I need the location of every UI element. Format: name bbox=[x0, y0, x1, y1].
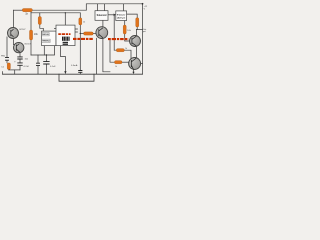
resistor R5 bbox=[79, 18, 82, 25]
wire R3 column lower bbox=[30, 40, 32, 55]
transistor Q4 bbox=[130, 36, 141, 47]
wire C2 lead bbox=[45, 55, 47, 74]
wire R4 bottom lead bbox=[8, 69, 10, 71]
wire R3 column upper bbox=[30, 13, 32, 30]
wire Q3 emitter down bbox=[95, 38, 97, 74]
IC U1 box bbox=[42, 31, 56, 45]
node +12V bbox=[142, 3, 148, 11]
svg-text:0.1uF: 0.1uF bbox=[50, 66, 56, 68]
wire R5 column bbox=[79, 13, 81, 74]
capacitor C3 bbox=[36, 63, 40, 65]
svg-text:BC547: BC547 bbox=[19, 29, 26, 31]
wire bottom-left stub bbox=[2, 72, 4, 75]
wire OUT node bbox=[136, 29, 142, 31]
wire ground bus drop bbox=[14, 70, 16, 74]
svg-text:DISCHG: DISCHG bbox=[42, 34, 49, 36]
arrow between boxes bbox=[114, 14, 116, 17]
current arrow A1 0.5mA bbox=[64, 64, 78, 74]
wire second rail bbox=[31, 10, 80, 13]
svg-text:BC557: BC557 bbox=[25, 43, 32, 45]
svg-text:4.7uF: 4.7uF bbox=[23, 66, 29, 68]
wire R2 top lead bbox=[39, 13, 41, 17]
resistor R10 bbox=[136, 18, 139, 27]
box U3 bbox=[116, 11, 127, 21]
svg-text:Timer: Timer bbox=[117, 14, 126, 17]
wire under loop bbox=[59, 74, 94, 81]
wire U3 left tap down bbox=[114, 15, 116, 50]
capacitor C2 0.1uF bbox=[43, 62, 56, 68]
transistor Q5 bbox=[129, 58, 141, 70]
wire U3 top lead bbox=[122, 4, 124, 11]
wire Q4 base feed bbox=[125, 21, 132, 42]
wire Q3 second column bbox=[103, 39, 110, 72]
resistor R7 bbox=[84, 32, 94, 35]
resistor R9 bbox=[115, 61, 123, 64]
wire U2 left pin stub bbox=[54, 28, 56, 30]
label red load left bbox=[58, 33, 70, 35]
resistor R8 bbox=[116, 49, 124, 52]
wire Q5 emitter to rail bbox=[133, 70, 135, 73]
arrowhead Q5 emitter bbox=[132, 72, 134, 74]
label red mid bbox=[73, 38, 94, 40]
node N3 bbox=[80, 33, 81, 34]
wire R9 feed column bbox=[110, 40, 115, 62]
wire U3 right lead bbox=[127, 14, 138, 18]
transistor Q1 bbox=[8, 28, 27, 39]
transistor Q2 bbox=[14, 42, 32, 52]
wire drop to U2 box bbox=[64, 13, 66, 25]
IC U2 box bbox=[56, 25, 75, 45]
svg-text:Solenoid: Solenoid bbox=[97, 15, 107, 17]
node N2 bbox=[46, 54, 47, 55]
wire R9 to Q5 base bbox=[122, 61, 131, 63]
resistor R4 bbox=[7, 63, 10, 70]
capacitor C5 4.7uF bbox=[14, 61, 29, 68]
label red right bbox=[108, 38, 129, 40]
wire PB1 column bbox=[6, 37, 8, 63]
wire Q5 collector stub bbox=[141, 63, 143, 65]
resistor R1 1k bbox=[22, 9, 32, 12]
solenoid box B1 bbox=[95, 11, 108, 21]
wire bottom rail bbox=[3, 73, 143, 75]
wire left rail top bbox=[13, 10, 15, 27]
wire Q2 emitter column bbox=[19, 53, 21, 70]
wire U2 right pin stubs bbox=[75, 29, 78, 32]
svg-text:put: put bbox=[143, 30, 146, 33]
wire U2 bottom leads bbox=[61, 46, 66, 72]
wire Q3 collector to solenoid bbox=[102, 20, 104, 27]
wire U1 bottom lead bbox=[43, 46, 45, 55]
resistor R11 bbox=[123, 25, 126, 34]
capacitor C6 bbox=[78, 71, 82, 73]
wire W1 horizontal bbox=[31, 46, 55, 55]
wire R5 to R7 bbox=[80, 33, 83, 35]
node OUT bbox=[143, 28, 147, 33]
wire R10 bottom lead bbox=[136, 27, 138, 30]
wire Q4 emitter to Q5 bbox=[135, 46, 137, 58]
wire top rail mid segment bbox=[32, 9, 86, 11]
wire Q4 collector lead bbox=[135, 30, 137, 37]
svg-text:1k: 1k bbox=[83, 21, 85, 23]
wire C3 lead bbox=[37, 55, 39, 74]
wire solenoid top leads bbox=[98, 4, 105, 11]
svg-text:THRESHLD: THRESHLD bbox=[42, 41, 50, 43]
wire Q1 to Q2 bbox=[14, 37, 17, 45]
wire Q1 collector lead bbox=[13, 28, 15, 29]
wire arrow link boxes bbox=[108, 14, 114, 16]
resistor R2 bbox=[38, 17, 41, 25]
capacitor C4 10n bbox=[17, 57, 29, 61]
svg-text:drive: drive bbox=[117, 17, 127, 20]
svg-text:1k: 1k bbox=[115, 66, 117, 68]
wire ground bus left bbox=[9, 69, 20, 71]
svg-text:1k: 1k bbox=[125, 48, 127, 50]
wire right rail bbox=[142, 4, 144, 74]
node N1 bbox=[65, 12, 66, 13]
switch PB1 bbox=[1, 56, 9, 61]
wire top rail left segment bbox=[14, 9, 23, 11]
wire R8 right lead bbox=[124, 50, 131, 60]
wire R7 to Q3 base bbox=[93, 33, 96, 35]
svg-text:0.5mA: 0.5mA bbox=[71, 64, 78, 67]
transistor Q3 bbox=[96, 27, 108, 39]
wire top rail jog up bbox=[86, 4, 142, 10]
resistor R3 bbox=[30, 30, 33, 40]
wire R2 bottom lead bbox=[40, 25, 44, 32]
